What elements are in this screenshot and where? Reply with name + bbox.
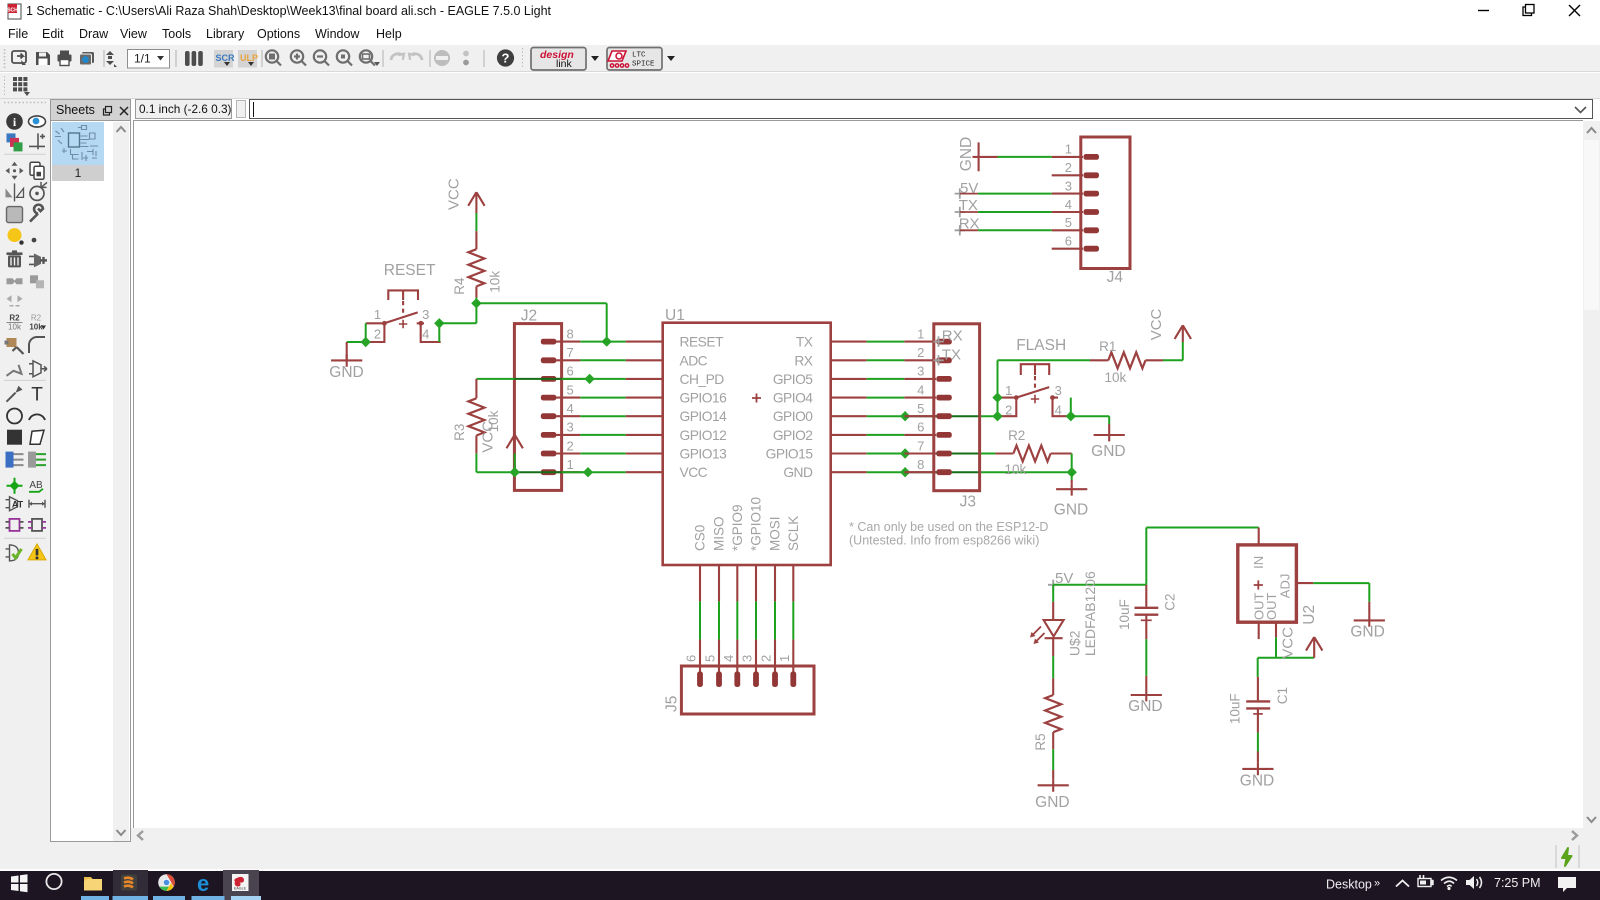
svg-text:MOSI: MOSI (768, 516, 783, 551)
start (11, 874, 28, 892)
svg-text:SPICE: SPICE (632, 61, 655, 69)
svg-text:AT: AT (12, 500, 24, 510)
battery (1418, 875, 1433, 887)
connector J4 pin 3 stub (1052, 193, 1083, 195)
SCR icon (214, 50, 235, 68)
wire through J3 box (GND) (905, 471, 980, 473)
connector J5 pin 5 stub (718, 640, 720, 673)
svg-text:7: 7 (917, 438, 924, 453)
component U1 bottom pin 5 (718, 565, 720, 601)
connector J2 pin 5 flag (541, 395, 557, 401)
resistor R1 (1108, 352, 1145, 368)
svg-text:3: 3 (1065, 178, 1072, 193)
LED U$2 cathode pin (1052, 638, 1054, 656)
design link button (523, 48, 600, 71)
wire J2 pin 3 to U1 (580, 434, 625, 436)
svg-text:1/1: 1/1 (134, 52, 151, 66)
connector J4 pin 4 flag (1084, 209, 1100, 215)
wire GND row drop (1071, 472, 1073, 480)
junction GND row (1067, 467, 1077, 477)
wire U1 GND to junction (867, 471, 905, 473)
svg-text:3: 3 (917, 364, 924, 379)
connector J4 pin 6 stub (1052, 248, 1083, 250)
connector J2 pin 4 stub (556, 415, 580, 417)
svg-text:*GPIO9: *GPIO9 (730, 504, 745, 551)
svg-text:* Can only be used on the ESP1: * Can only be used on the ESP12-D (849, 520, 1048, 534)
power VCC symbol (at R1) (1175, 325, 1191, 342)
wire node to J2 pin8 column (476, 302, 606, 304)
svg-text:R4: R4 (452, 277, 467, 295)
coordinate box (135, 99, 232, 119)
svg-text:10k: 10k (8, 323, 22, 332)
wire R4 to node (475, 298, 477, 324)
switch RESET plunger (dashed) (402, 301, 404, 317)
wire R2 to GND row (1071, 454, 1073, 473)
component U1 pin (left, row 2) (626, 359, 663, 361)
switch FLASH pin3 contact dot (1050, 395, 1055, 400)
supply RX cross (J3 pin1) (933, 336, 943, 346)
svg-text:2: 2 (374, 327, 381, 342)
ULP icon (238, 50, 258, 68)
connector J3 pin 4 flag (936, 395, 952, 401)
image icon (80, 52, 95, 65)
wire R3 bottom net (VCC row) (476, 471, 514, 473)
wire TX to J4 pin4 (978, 211, 1052, 213)
junction FLASH pin4 (1066, 411, 1076, 421)
open icon (12, 51, 26, 65)
wire U1 pin to J5 (774, 601, 776, 639)
svg-text:J2: J2 (521, 308, 537, 325)
sublime (113, 870, 148, 900)
connector J4 pin 3 flag (1084, 191, 1100, 197)
connector J2 pin 2 flag (541, 451, 557, 457)
svg-text:SCH: SCH (7, 8, 18, 14)
connector J2 pin 4 flag (541, 413, 557, 419)
wifi (1441, 877, 1457, 886)
component U1 pin (right, RX) (831, 359, 867, 361)
svg-text:TX: TX (796, 335, 813, 350)
wire stub GND (ADJ) (1368, 602, 1370, 615)
svg-text:10uF: 10uF (1227, 693, 1242, 724)
canvas (133, 120, 1583, 828)
regulator U2 IN pin (1258, 528, 1260, 545)
svg-text:GND: GND (1350, 624, 1384, 641)
svg-text:*GPIO10: *GPIO10 (749, 497, 764, 551)
wire U1 pin to J5 (755, 601, 757, 639)
resistor R3 pins (475, 379, 477, 398)
supply 5V cross (LED rail) (1048, 580, 1058, 590)
component U1 pin (right, GPIO4) (831, 397, 867, 399)
zoom icons (266, 50, 375, 65)
wire R1 to VCC (1163, 359, 1183, 361)
connector J2 pin 3 flag (541, 432, 557, 438)
svg-text:4: 4 (422, 327, 429, 342)
component U1 pin (left, row 4) (626, 397, 663, 399)
component U1 pin (left, row 7) (626, 452, 663, 454)
connector J3 pin 5 flag (936, 413, 952, 419)
svg-text:5: 5 (1065, 215, 1072, 230)
speaker (1466, 876, 1474, 889)
svg-text:LEDFAB1206: LEDFAB1206 (1082, 571, 1098, 656)
svg-text:R2: R2 (9, 314, 20, 323)
svg-text:ULP: ULP (240, 53, 258, 63)
svg-text:10uF: 10uF (1117, 599, 1132, 630)
resistor R5 pins (1052, 678, 1054, 695)
svg-text:J4: J4 (1107, 269, 1124, 286)
svg-text:GND: GND (1240, 773, 1274, 790)
switch FLASH origin cross (1031, 395, 1039, 403)
svg-text:2: 2 (759, 655, 774, 662)
component U1 pin (right, GPIO0) (831, 415, 867, 417)
svg-text:10k: 10k (1105, 370, 1127, 385)
connector J5 box (681, 666, 814, 714)
wire J2 pin 8 to U1 (580, 341, 625, 343)
svg-text:1: 1 (1005, 383, 1012, 398)
svg-text:VCC: VCC (1148, 308, 1165, 340)
junction FLASH pin2 (992, 411, 1002, 421)
svg-text:8: 8 (917, 457, 924, 472)
ground GND (ADJ) (1354, 614, 1385, 626)
connector J3 pin 3 stub (904, 378, 936, 380)
capacitor C2 plates (1135, 607, 1159, 609)
svg-text:4: 4 (1055, 402, 1062, 417)
svg-text:?: ? (502, 51, 510, 66)
svg-text:2: 2 (1005, 402, 1012, 417)
connector J4 pin 2 stub (1052, 174, 1083, 176)
svg-text:7: 7 (567, 345, 574, 360)
wire RESET to R4 node (439, 322, 476, 324)
supply RX stub (960, 229, 978, 231)
svg-text:10k: 10k (1005, 462, 1027, 477)
svg-text:TX: TX (942, 346, 961, 363)
wire through J3 box (GPIO15) (905, 453, 980, 455)
wire stub GND (FLASH) (1108, 424, 1110, 429)
stop icon (434, 50, 450, 66)
connector J5 pin 6 stub (699, 640, 701, 673)
svg-text:R2: R2 (1008, 428, 1025, 443)
connector J3 pin 1 stub (904, 341, 936, 343)
svg-text:J5: J5 (664, 696, 681, 712)
wire 5V rail (1053, 584, 1146, 586)
wire J3 to right (GND) (980, 471, 1072, 473)
svg-text:T: T (31, 385, 43, 406)
connector J4 pin 6 flag (1084, 246, 1100, 252)
connector J5 pin 6 flag (697, 672, 703, 688)
connector J5 pin 3 stub (755, 640, 757, 673)
connector J5 pin 2 stub (774, 640, 776, 673)
svg-text:RX: RX (794, 353, 812, 368)
switch FLASH top bracket (1021, 364, 1049, 375)
svg-text:SCLK: SCLK (786, 516, 801, 551)
resistor R1 pins (1090, 359, 1108, 361)
svg-text:RESET: RESET (384, 262, 436, 279)
connector J3 pin 6 flag (936, 432, 952, 438)
IC U1 origin cross (red) (752, 394, 761, 403)
svg-text:GPIO12: GPIO12 (680, 428, 727, 443)
svg-text:4: 4 (917, 382, 924, 397)
switch RESET top bracket (388, 290, 418, 300)
wire stub to GND symbol (346, 342, 348, 360)
svg-text:GND: GND (1054, 502, 1088, 519)
wire VCC arrow to row1 (514, 453, 516, 472)
junction row6 (584, 374, 594, 384)
sheets scrollbar (113, 122, 129, 841)
wire U1 TX to J3 (867, 341, 905, 343)
svg-text:GPIO15: GPIO15 (766, 447, 814, 462)
resistor R2 (1013, 446, 1050, 462)
wire U1 GPIO0 to junction (867, 415, 905, 417)
wire LED to R5 (1052, 656, 1054, 678)
svg-text:1: 1 (374, 307, 381, 322)
wire U1 pin to J5 (699, 601, 701, 639)
left tool palette (0, 99, 50, 870)
junction at J2 pin8 wire (602, 336, 612, 346)
connector J5 pin 4 flag (734, 672, 740, 688)
ground GND (R2 row) (1056, 483, 1087, 495)
wire R3 to VCC row (475, 453, 477, 472)
component U1 bottom pin 3 (755, 565, 757, 601)
svg-text:C1: C1 (1275, 687, 1290, 704)
resistor R3 (468, 398, 484, 435)
svg-text:e: e (197, 871, 209, 896)
svg-text:10k: 10k (487, 271, 502, 293)
switch RESET origin cross (399, 320, 407, 328)
regulator U2 box (1238, 545, 1297, 622)
wire U1 GPIO4 to J3 (867, 397, 905, 399)
connector J3 pin 3 flag (936, 376, 952, 382)
junction FLASH pin1 (992, 392, 1002, 402)
menu bar (0, 23, 1600, 45)
ltcspice button (607, 48, 675, 71)
chrome (158, 874, 175, 892)
svg-text:5: 5 (917, 401, 924, 416)
dots icon (463, 51, 469, 57)
junction RESET pin2 (361, 337, 371, 347)
wire OUT to C1 (1257, 658, 1259, 677)
svg-text:GND: GND (1091, 443, 1125, 460)
svg-text:R5: R5 (1033, 733, 1048, 750)
svg-text:C2: C2 (1163, 594, 1178, 611)
wire U1 pin to J5 (792, 601, 794, 639)
svg-text:R2: R2 (31, 314, 42, 323)
connector J3 pin 2 flag (936, 357, 952, 363)
svg-text:8: 8 (567, 326, 574, 341)
junction GPIO15 row (900, 448, 910, 458)
connector J2 box (514, 324, 561, 491)
connector J2 pin 8 stub (556, 341, 580, 343)
LED U$2 anode pin (1052, 602, 1054, 620)
capacitor C2 top pin (1145, 585, 1147, 607)
svg-text:RESET: RESET (680, 335, 725, 350)
power VCC symbol (at J2) (507, 435, 523, 454)
connector J5 pin 1 flag (790, 672, 796, 688)
IC U1 box (663, 323, 831, 565)
connector J5 pin 1 stub (792, 640, 794, 673)
wire stub GND (C1) (1257, 752, 1259, 763)
wire through J3 box (GPIO0) (905, 415, 980, 417)
svg-text:VCC: VCC (1280, 627, 1297, 659)
svg-text:GND: GND (1035, 794, 1069, 811)
svg-text:R1: R1 (1099, 339, 1116, 354)
sheet thumbnail (52, 122, 104, 165)
wire OUT rail (1258, 657, 1315, 659)
svg-text:GPIO2: GPIO2 (773, 428, 813, 443)
switch FLASH pins1-2 bracket (998, 398, 1017, 417)
connector J2 pin 1 stub (556, 471, 580, 473)
svg-text:3: 3 (1055, 383, 1062, 398)
component U1 bottom pin 1 (792, 565, 794, 601)
svg-text:6: 6 (567, 364, 574, 379)
wire 5V to LED (1052, 585, 1054, 602)
wire J3 to right (GPIO15) (980, 453, 996, 455)
command input (249, 99, 1593, 119)
svg-text:3: 3 (567, 420, 574, 435)
capacitor C1 top pin (1257, 677, 1259, 701)
explorer (84, 877, 102, 891)
connector J4 pin 2 flag (1084, 172, 1100, 178)
supply 5V stub (960, 193, 978, 195)
wire OUT down (1275, 637, 1277, 658)
save icon (36, 52, 50, 65)
ground GND (RESET) (331, 354, 362, 366)
svg-text:GPIO13: GPIO13 (680, 447, 728, 462)
svg-text:1: 1 (777, 655, 792, 662)
component U1 bottom pin 4 (736, 565, 738, 601)
sheet dropdown 1/1 (128, 50, 170, 69)
svg-text:VCC: VCC (445, 178, 462, 210)
svg-text:5: 5 (567, 382, 574, 397)
capacitor C2 bottom pin (1145, 615, 1147, 640)
connector J4 pin 5 flag (1084, 227, 1100, 233)
svg-text:6: 6 (1065, 234, 1072, 249)
svg-text:Desktop: Desktop (1326, 878, 1372, 892)
connector J3 pin 4 stub (904, 397, 936, 399)
switch RESET pin3 contact dot (419, 321, 424, 326)
connector J4 pin 1 flag (1084, 154, 1100, 160)
connector J4 pin 5 stub (1052, 229, 1083, 231)
connector J2 pin 7 flag (541, 357, 557, 363)
wire U1 GPIO2 to J3 (867, 434, 905, 436)
wire J2 pin 7 to U1 (580, 359, 625, 361)
wire U1 GPIO5 to J3 (867, 378, 905, 380)
component U1 pin (left, row 5) (626, 415, 663, 417)
svg-text:4: 4 (567, 401, 574, 416)
connector J3 box (934, 324, 980, 491)
connector J3 pin 7 flag (936, 451, 952, 457)
connector J2 pin 1 flag (541, 469, 557, 475)
svg-text:(Untested. Info from esp8266 w: (Untested. Info from esp8266 wiki) (849, 534, 1039, 548)
connector J4 pin 1 stub (1052, 156, 1083, 158)
wire J2 pin 2 to U1 (580, 453, 625, 455)
switch FLASH lever (1016, 387, 1049, 398)
wire J3 to right (GPIO0) (980, 415, 998, 417)
wire FLASH pin4 to GND (1071, 415, 1109, 417)
v scrollbar (1583, 121, 1600, 828)
svg-text:RX: RX (942, 327, 963, 344)
svg-text:»: » (1374, 878, 1380, 890)
svg-text:4: 4 (1065, 197, 1072, 212)
underlines (81, 896, 225, 900)
wire rail up to U2 (1145, 528, 1147, 585)
wire U1 pin to J5 (736, 601, 738, 639)
svg-text:GPIO0: GPIO0 (773, 409, 813, 424)
wire FLASH to R1 (998, 359, 1091, 361)
component U1 pin (right, GPIO2) (831, 434, 867, 436)
wire C2 to GND (1145, 639, 1147, 676)
svg-text:J3: J3 (960, 494, 976, 511)
regulator U2 OUT pin a (stub) (1258, 622, 1260, 639)
wire stub GND (R5) (1052, 770, 1054, 779)
wire R5 to GND (1052, 749, 1054, 770)
connector J5 pin 4 stub (736, 640, 738, 673)
print icon (58, 51, 72, 66)
supply TX cross (J3 pin2) (933, 355, 943, 365)
connector J3 pin 6 stub (904, 434, 936, 436)
wire stub GND (R2) (1071, 480, 1073, 483)
component U1 pin (right, GPIO5) (831, 378, 867, 380)
notification (1558, 877, 1576, 892)
capacitor C2 polarity tick (1141, 619, 1152, 621)
power VCC symbol (at U2 out) (1306, 637, 1322, 658)
svg-text:6: 6 (684, 655, 699, 662)
svg-text:10k: 10k (29, 323, 43, 332)
svg-text:3: 3 (422, 307, 429, 322)
wire 5V to J4 pin3 (978, 193, 1052, 195)
svg-text:GPIO16: GPIO16 (680, 391, 728, 406)
connector J3 pin 7 stub (904, 452, 936, 454)
svg-text:ADC: ADC (680, 353, 708, 368)
wire RX to J4 pin5 (978, 229, 1052, 231)
wire RESET pin3-pin4 (right) (438, 323, 440, 342)
layers icon (185, 51, 203, 66)
component U1 pin (left, row 1) (626, 341, 663, 343)
wire U1 pin to J5 (718, 601, 720, 639)
wire R3 top net (GPIO12 row) (476, 378, 514, 380)
svg-text:1: 1 (917, 326, 924, 341)
svg-text:R3: R3 (452, 424, 467, 441)
connector J3 pin 8 flag (936, 469, 952, 475)
svg-text:AB: AB (29, 480, 43, 491)
switch RESET pin1 contact dot (382, 321, 387, 326)
connector J2 pin 7 stub (556, 359, 580, 361)
wire J2 pin 1 to U1 (580, 471, 625, 473)
connector J4 pin 4 stub (1052, 211, 1083, 213)
junction VCC row1 (510, 467, 520, 477)
svg-text:ADJ: ADJ (1277, 574, 1292, 599)
component U1 pin (right, GPIO15) (831, 452, 867, 454)
svg-text:LTC: LTC (632, 52, 646, 60)
wire down to pin8 row (606, 303, 608, 341)
regulator U2 ADJ pin (1296, 582, 1313, 584)
wire J2 pin 6 to U1 (580, 378, 625, 380)
junction GPIO0 row (900, 411, 910, 421)
h scrollbar + status strip (131, 828, 1600, 870)
wire C1 to GND (1257, 733, 1259, 752)
connector J4 box (1081, 137, 1130, 269)
svg-text:GND: GND (783, 465, 813, 480)
svg-text:2: 2 (567, 438, 574, 453)
connector J5 pin 3 flag (753, 672, 759, 688)
svg-text:GND: GND (1128, 698, 1162, 715)
svg-text:GPIO4: GPIO4 (773, 391, 813, 406)
svg-text:CS0: CS0 (693, 525, 708, 551)
wire through J2 box (row6) (514, 378, 561, 380)
wire J2 pin 4 to U1 (580, 415, 625, 417)
svg-text:1: 1 (567, 457, 574, 472)
supply TX cross (J4 pin4) (955, 207, 965, 217)
svg-text:MISO: MISO (712, 516, 727, 551)
wire FLASH pin3-pin4 (right) (1070, 398, 1072, 417)
